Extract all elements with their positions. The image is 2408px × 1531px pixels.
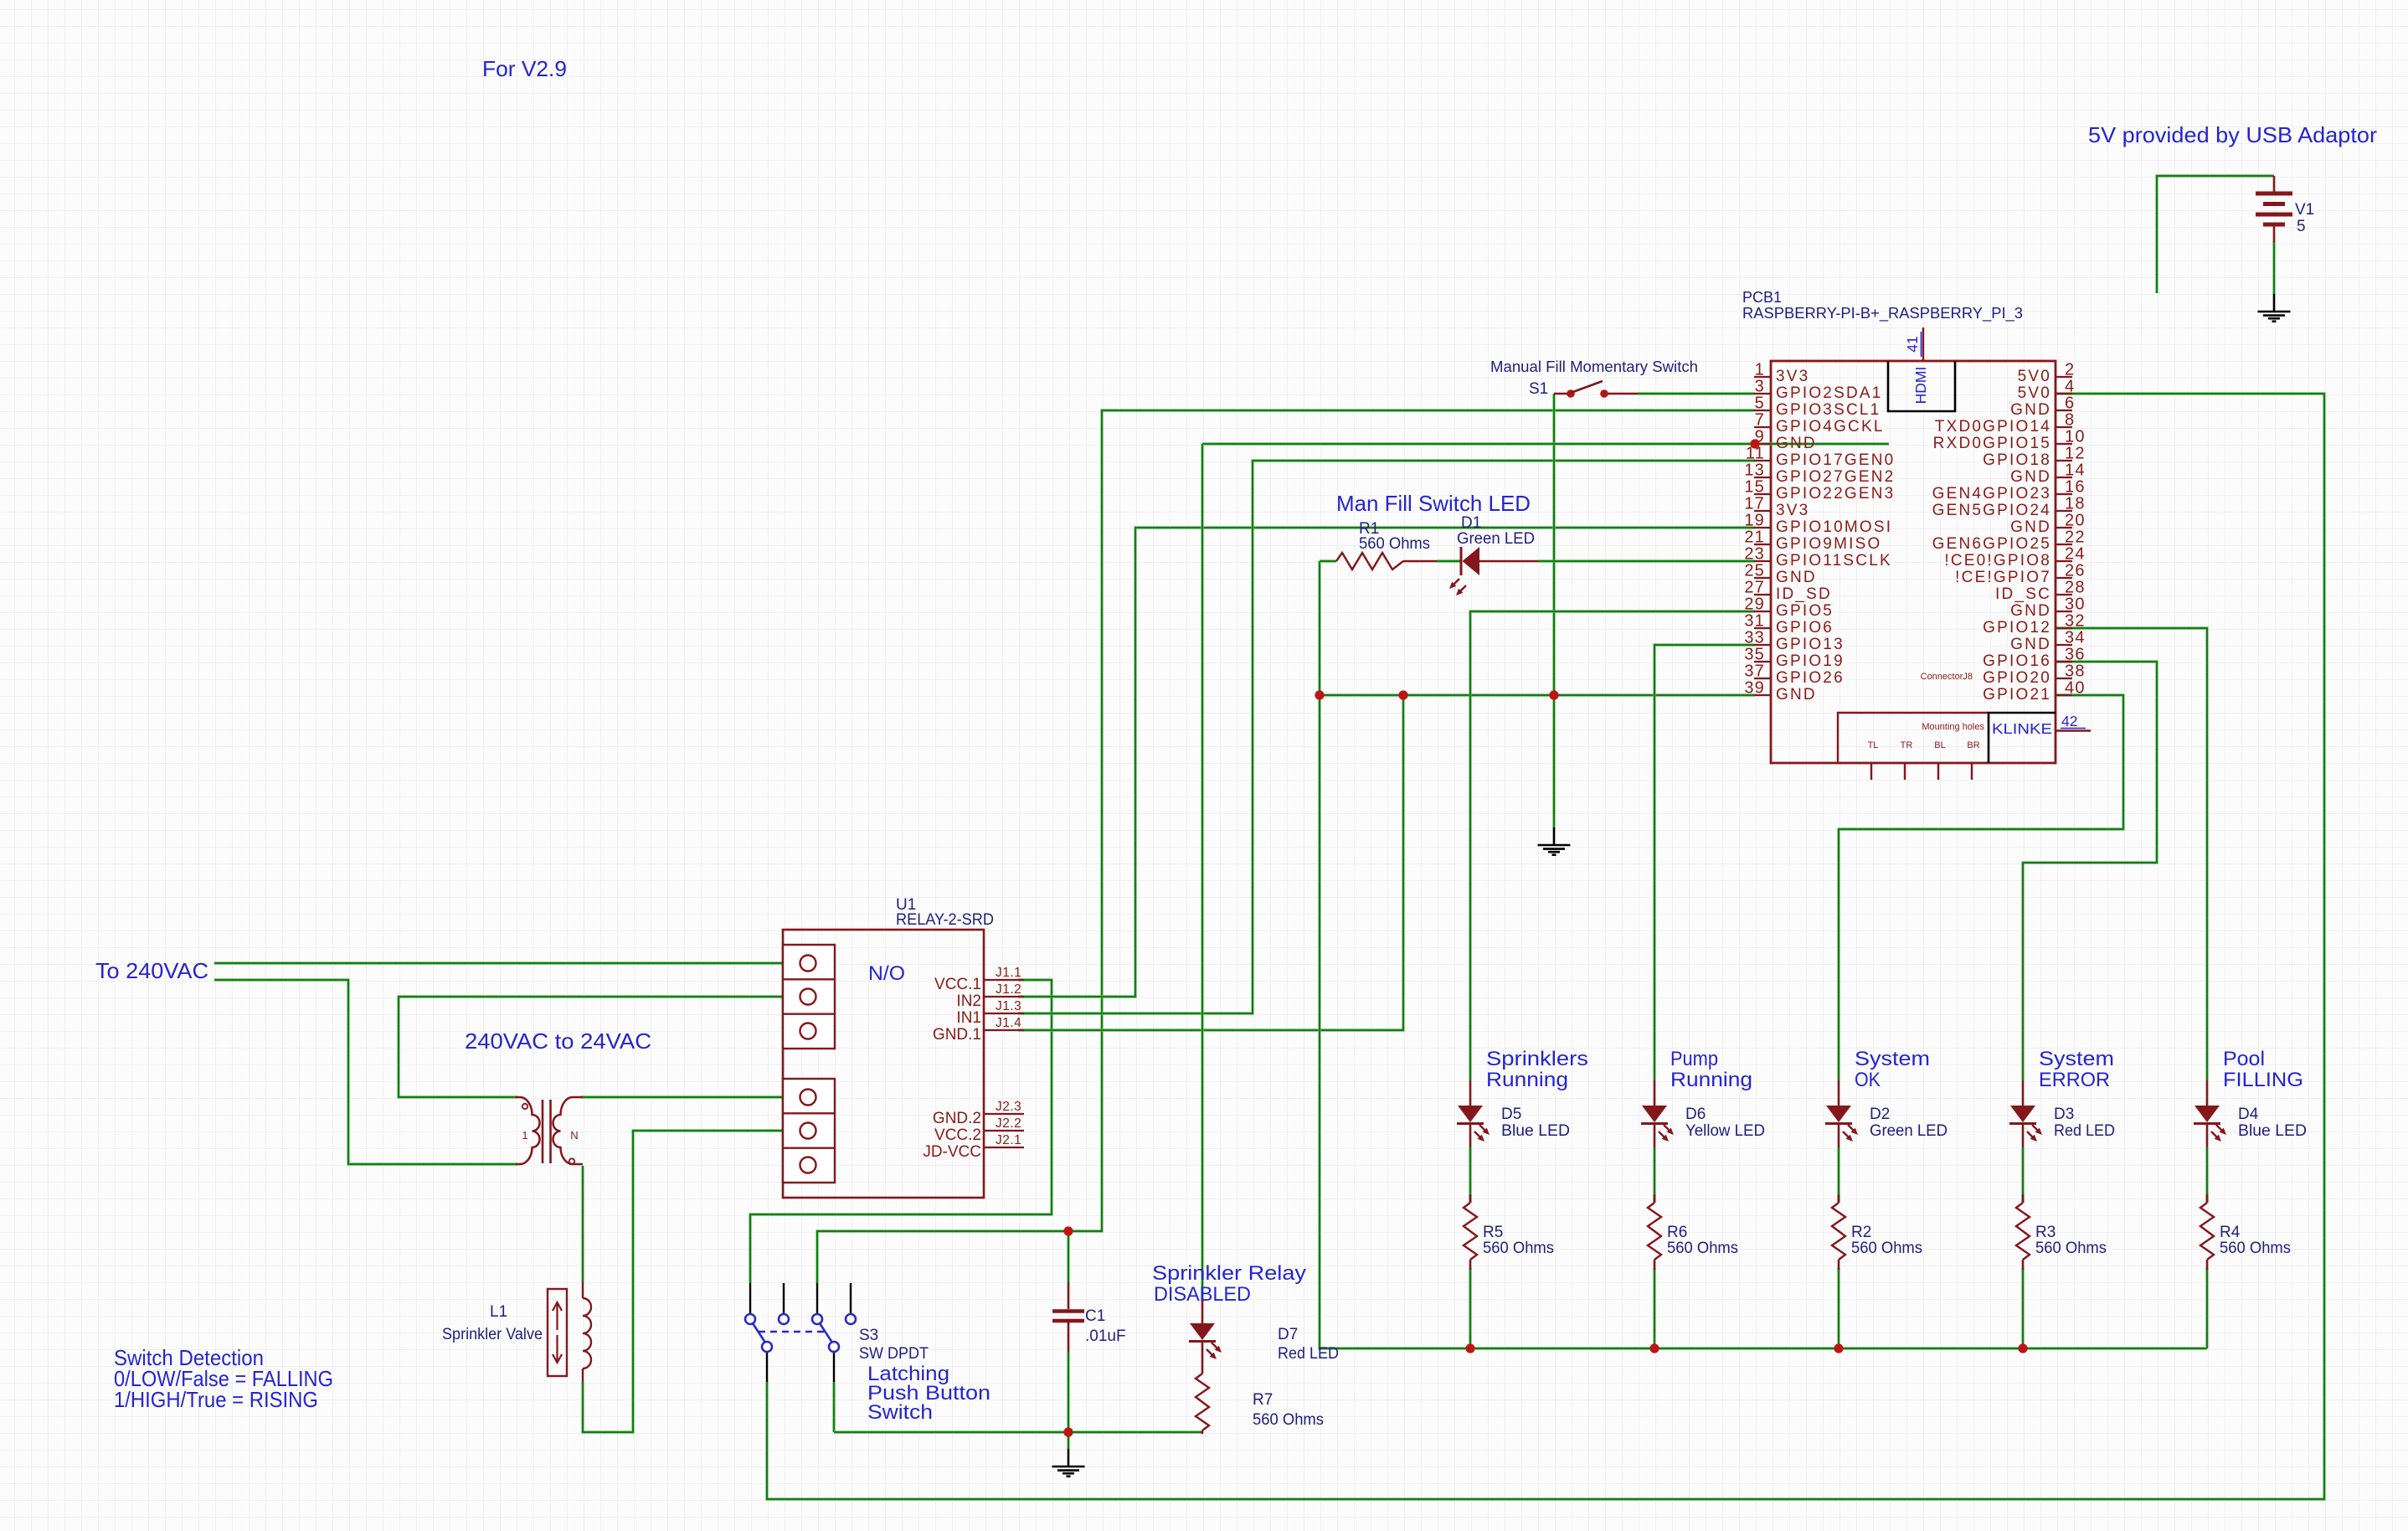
svg-text:3V3: 3V3 xyxy=(1776,502,1809,519)
LED D7 red xyxy=(1189,1298,1222,1365)
svg-text:28: 28 xyxy=(2065,579,2086,597)
LED D6 Yellow LED xyxy=(1641,1080,1674,1147)
svg-text:Mounting holes: Mounting holes xyxy=(1922,722,1984,732)
wire: relay U1 N/O terminal 2 to transformer primary top xyxy=(399,997,808,1097)
PCB1 left pins 1-39 with numbers and labels xyxy=(1744,361,1895,704)
svg-text:3: 3 xyxy=(1755,378,1765,396)
svg-text:29: 29 xyxy=(1744,595,1765,614)
svg-text:For V2.9: For V2.9 xyxy=(482,56,567,81)
svg-text:Pump: Pump xyxy=(1670,1048,1718,1070)
svg-text:PCB1: PCB1 xyxy=(1742,289,1782,306)
wire: S1 left terminal down to ground xyxy=(1552,394,1556,827)
svg-text:GND: GND xyxy=(2010,518,2051,536)
svg-text:20: 20 xyxy=(2065,512,2086,530)
svg-text:To 240VAC: To 240VAC xyxy=(95,958,208,983)
svg-text:3V3: 3V3 xyxy=(1776,368,1809,385)
wire: battery V1 positive stub xyxy=(2157,176,2274,293)
svg-text:D2: D2 xyxy=(1870,1106,1890,1123)
wire: transformer secondary top to relay coil terminal xyxy=(581,1095,808,1099)
svg-text:J1.1: J1.1 xyxy=(996,966,1021,980)
note header System ERROR xyxy=(2039,1048,2114,1091)
wire: relay GND.1 up to GND bus xyxy=(1018,695,1403,1030)
svg-text:19: 19 xyxy=(1744,512,1765,530)
switch S1 momentary xyxy=(1554,381,1638,398)
svg-text:42: 42 xyxy=(2061,713,2077,729)
label Sprinkler Relay DISABLED xyxy=(1152,1262,1307,1306)
svg-text:System: System xyxy=(1855,1048,1930,1070)
svg-text:560 Ohms: 560 Ohms xyxy=(1851,1240,1922,1257)
wire: pin 32 GPIO12 to LED D4 column xyxy=(2056,628,2207,1348)
svg-text:JD-VCC: JD-VCC xyxy=(923,1143,981,1161)
label PCB1 reference xyxy=(1742,289,2023,322)
note header Pool FILLING xyxy=(2223,1048,2303,1091)
label N/O xyxy=(868,962,905,985)
svg-text:R6: R6 xyxy=(1667,1224,1687,1241)
svg-text:10: 10 xyxy=(2065,428,2086,446)
ground symbol below C1 xyxy=(1052,1449,1085,1477)
svg-text:J1.3: J1.3 xyxy=(996,999,1021,1013)
svg-text:17: 17 xyxy=(1744,495,1765,513)
wire: L1 bottom to relay coil terminal 2 xyxy=(583,1131,808,1432)
mounting holes box TL TR BL BR xyxy=(1838,713,1989,780)
svg-text:ERROR: ERROR xyxy=(2039,1069,2110,1091)
svg-text:GND: GND xyxy=(1776,569,1817,586)
svg-text:C1: C1 xyxy=(1085,1307,1105,1325)
svg-text:Switch: Switch xyxy=(867,1401,933,1424)
junction: pin 9 GND xyxy=(1750,439,1759,448)
label D7 Red LED xyxy=(1278,1326,1339,1363)
label S3 SW DPDT xyxy=(859,1327,929,1363)
svg-text:Yellow LED: Yellow LED xyxy=(1685,1122,1765,1140)
wire: relay IN2 to pin 19 GPIO10MOSI xyxy=(1018,528,1755,997)
svg-text:J1.4: J1.4 xyxy=(996,1016,1021,1030)
ground symbol below S1 xyxy=(1538,827,1571,855)
svg-text:27: 27 xyxy=(1744,579,1765,597)
wire: LED common ground bus xyxy=(1320,561,2207,1348)
wire: pin 40 GPIO21 to LED D2 column xyxy=(1839,695,2123,1348)
note For V2.9 xyxy=(482,56,567,81)
svg-text:5V provided by USB Adaptor: 5V provided by USB Adaptor xyxy=(2088,122,2377,147)
wire: battery V1 negative to ground xyxy=(2272,241,2276,294)
svg-text:GPIO4GCKL: GPIO4GCKL xyxy=(1776,418,1885,436)
svg-text:N/O: N/O xyxy=(868,962,905,985)
label R2 560 Ohms xyxy=(1851,1224,1922,1257)
svg-text:VCC.2: VCC.2 xyxy=(934,1126,981,1144)
pin 42 KLINKE stub xyxy=(2056,713,2091,731)
svg-text:!CE!GPIO7: !CE!GPIO7 xyxy=(1955,569,2051,586)
svg-text:Green LED: Green LED xyxy=(1870,1122,1947,1140)
svg-text:35: 35 xyxy=(1744,646,1765,664)
svg-text:ID_SD: ID_SD xyxy=(1776,585,1832,603)
wire: S1 right terminal to pin 3 GPIO2SDA1 xyxy=(1638,392,1755,395)
svg-text:GPIO9MISO: GPIO9MISO xyxy=(1776,535,1881,553)
svg-text:S1: S1 xyxy=(1529,380,1548,398)
resistor R4 560 Ohms xyxy=(2200,1194,2214,1270)
svg-text:GND: GND xyxy=(2010,401,2051,419)
resistor R3 560 Ohms xyxy=(2016,1194,2030,1270)
net: pin 5 GPIO3SCL1 - S3 throw B1 - C1 top xyxy=(817,410,1755,1283)
svg-text:Pool: Pool xyxy=(2223,1048,2265,1070)
svg-text:ConnectorJ8: ConnectorJ8 xyxy=(1921,672,1973,682)
svg-text:Sprinklers: Sprinklers xyxy=(1486,1048,1588,1070)
svg-text:1/HIGH/True = RISING: 1/HIGH/True = RISING xyxy=(114,1387,318,1412)
svg-text:GPIO22GEN3: GPIO22GEN3 xyxy=(1776,485,1895,503)
svg-text:TL: TL xyxy=(1868,740,1879,750)
switch S3 SW DPDT xyxy=(745,1283,856,1382)
svg-text:GPIO27GEN2: GPIO27GEN2 xyxy=(1776,468,1895,486)
svg-text:560 Ohms: 560 Ohms xyxy=(1667,1240,1738,1257)
junction: C1 bottom / S3-R7 net xyxy=(1063,1427,1073,1436)
svg-text:15: 15 xyxy=(1744,478,1765,497)
label D1 Green LED xyxy=(1457,514,1535,548)
svg-text:22: 22 xyxy=(2065,528,2086,547)
wire: relay VCC.1 to S3 throw A1 xyxy=(750,980,1052,1283)
svg-text:J1.2: J1.2 xyxy=(996,982,1021,997)
svg-text:6: 6 xyxy=(2065,394,2075,413)
svg-text:16: 16 xyxy=(2065,478,2086,497)
svg-text:GPIO26: GPIO26 xyxy=(1776,669,1845,687)
wire: C1 column xyxy=(1067,1231,1070,1449)
svg-text:GEN6GPIO25: GEN6GPIO25 xyxy=(1932,535,2051,553)
label S1 xyxy=(1490,358,1698,398)
svg-text:21: 21 xyxy=(1744,528,1765,547)
svg-text:14: 14 xyxy=(2065,461,2086,480)
svg-text:System: System xyxy=(2039,1048,2114,1070)
svg-text:1: 1 xyxy=(522,1129,527,1142)
wire: D7 column from pin 9 GND xyxy=(1201,444,1204,1302)
svg-text:R5: R5 xyxy=(1483,1224,1503,1241)
label D2 Green LED xyxy=(1870,1106,1947,1140)
svg-text:!CE0!GPIO8: !CE0!GPIO8 xyxy=(1944,552,2051,570)
svg-text:8: 8 xyxy=(2065,411,2075,430)
junction: GND bus / relay GND.1 xyxy=(1398,690,1407,699)
svg-text:GPIO13: GPIO13 xyxy=(1776,636,1845,653)
svg-text:GEN4GPIO23: GEN4GPIO23 xyxy=(1932,485,2051,503)
wire: transformer secondary bottom to inductor L1 xyxy=(581,1166,584,1281)
svg-text:GND: GND xyxy=(2010,468,2051,486)
svg-text:Red LED: Red LED xyxy=(1278,1345,1339,1363)
junction: GND bus / S1 ground xyxy=(1549,690,1558,699)
label Latching Push Button Switch xyxy=(867,1363,990,1424)
svg-text:FILLING: FILLING xyxy=(2223,1069,2303,1091)
label D5 Blue LED xyxy=(1501,1106,1570,1140)
svg-text:560 Ohms: 560 Ohms xyxy=(2035,1240,2107,1257)
svg-text:D3: D3 xyxy=(2054,1106,2074,1123)
label R4 560 Ohms xyxy=(2220,1224,2291,1257)
svg-text:VCC.1: VCC.1 xyxy=(934,976,981,993)
svg-text:40: 40 xyxy=(2065,679,2086,698)
svg-text:Running: Running xyxy=(1486,1069,1568,1091)
svg-text:38: 38 xyxy=(2065,662,2086,681)
svg-text:26: 26 xyxy=(2065,562,2086,580)
label 240VAC to 24VAC xyxy=(465,1028,651,1054)
svg-text:Sprinkler Relay: Sprinkler Relay xyxy=(1152,1262,1307,1285)
svg-text:Blue LED: Blue LED xyxy=(1501,1122,1570,1140)
svg-text:7: 7 xyxy=(1755,411,1765,430)
label D4 Blue LED xyxy=(2238,1106,2307,1140)
svg-text:.01uF: .01uF xyxy=(1085,1327,1126,1345)
svg-text:GPIO6: GPIO6 xyxy=(1776,619,1834,637)
junction: C1 top / pin5-S3 net xyxy=(1063,1226,1073,1235)
svg-text:S3: S3 xyxy=(859,1327,878,1344)
svg-text:1: 1 xyxy=(1755,361,1765,379)
svg-text:KLINKE: KLINKE xyxy=(1992,720,2052,737)
note header Pump Running xyxy=(1670,1048,1752,1091)
svg-text:18: 18 xyxy=(2065,495,2086,513)
svg-text:ID_SC: ID_SC xyxy=(1995,585,2051,603)
svg-text:DISABLED: DISABLED xyxy=(1154,1283,1251,1306)
wire: To 240VAC lower line to transformer primary bottom xyxy=(214,980,517,1164)
relay U1 RELAY-2-SRD body xyxy=(783,930,984,1198)
svg-text:D5: D5 xyxy=(1501,1106,1521,1123)
svg-text:5V0: 5V0 xyxy=(2018,384,2051,402)
resistor R1 560 Ohms xyxy=(1320,553,1437,570)
svg-text:BR: BR xyxy=(1967,740,1979,750)
svg-text:R2: R2 xyxy=(1851,1224,1871,1241)
LED D2 Green LED xyxy=(1825,1080,1858,1147)
svg-text:5: 5 xyxy=(2297,218,2306,235)
resistor R5 560 Ohms xyxy=(1464,1194,1477,1270)
svg-text:GPIO17GEN0: GPIO17GEN0 xyxy=(1776,451,1895,469)
svg-text:GPIO19: GPIO19 xyxy=(1776,652,1845,670)
svg-text:560 Ohms: 560 Ohms xyxy=(1483,1240,1554,1257)
svg-text:Man Fill Switch LED: Man Fill Switch LED xyxy=(1336,491,1531,516)
label U1 RELAY-2-SRD xyxy=(896,896,994,929)
wire: To 240VAC upper line to relay U1 N/O terminal 1 xyxy=(214,961,808,965)
battery V1 5V xyxy=(2256,176,2292,242)
svg-text:J2.2: J2.2 xyxy=(996,1116,1021,1131)
svg-text:5: 5 xyxy=(1755,394,1765,413)
junction: ground bus / R6 xyxy=(1649,1343,1659,1353)
svg-text:R4: R4 xyxy=(2220,1224,2241,1241)
label C1 .01uF xyxy=(1085,1307,1126,1345)
junction: ground bus / R2 xyxy=(1834,1343,1843,1353)
svg-text:GND: GND xyxy=(1776,435,1817,452)
LED D4 Blue LED xyxy=(2194,1080,2226,1147)
wire: pin 33 GPIO13 to LED D6 column xyxy=(1654,645,1755,1348)
svg-text:GPIO18: GPIO18 xyxy=(1983,451,2051,469)
svg-text:HDMI: HDMI xyxy=(1912,367,1929,405)
svg-text:TXD0GPIO14: TXD0GPIO14 xyxy=(1935,418,2051,436)
svg-text:GPIO11SCLK: GPIO11SCLK xyxy=(1776,552,1892,570)
inductor L1 sprinkler valve xyxy=(548,1281,591,1382)
junction: ground bus / R3 xyxy=(2018,1343,2027,1353)
LED D5 Blue LED xyxy=(1457,1080,1490,1147)
svg-text:RXD0GPIO15: RXD0GPIO15 xyxy=(1933,435,2051,452)
svg-text:GPIO3SCL1: GPIO3SCL1 xyxy=(1776,401,1881,419)
IC PCB1 RASPBERRY-PI-B+_RASPBERRY_PI_3 body xyxy=(1771,361,2056,763)
svg-text:GPIO21: GPIO21 xyxy=(1983,686,2051,704)
svg-text:N: N xyxy=(570,1129,578,1142)
wire: S3 common B to R7 bottom, C1 bottom junction xyxy=(834,1382,1202,1432)
svg-text:R7: R7 xyxy=(1253,1391,1273,1409)
svg-text:GEN5GPIO24: GEN5GPIO24 xyxy=(1932,502,2051,519)
label D6 Yellow LED xyxy=(1685,1106,1765,1140)
resistor R7 560 Ohms xyxy=(1196,1365,1209,1434)
svg-text:GND.1: GND.1 xyxy=(933,1026,981,1044)
svg-text:J2.1: J2.1 xyxy=(996,1133,1021,1147)
svg-text:TR: TR xyxy=(1901,740,1913,750)
svg-text:25: 25 xyxy=(1744,562,1765,580)
svg-text:D4: D4 xyxy=(2238,1106,2259,1123)
label Man Fill Switch LED xyxy=(1336,491,1531,516)
label R1 560 Ohms xyxy=(1359,520,1430,553)
svg-text:IN2: IN2 xyxy=(956,992,981,1010)
svg-text:GPIO2SDA1: GPIO2SDA1 xyxy=(1776,384,1883,402)
label To 240VAC xyxy=(95,958,208,983)
wire: GND bus from pin 39 xyxy=(1320,693,1755,697)
label R3 560 Ohms xyxy=(2035,1224,2107,1257)
wire: 5V rail from pin 4 down right side and along bottom to S3 common A xyxy=(767,394,2324,1499)
capacitor C1 .01uF xyxy=(1052,1282,1084,1352)
pin 41 HDMI stub xyxy=(1904,327,1923,361)
svg-text:GPIO10MOSI: GPIO10MOSI xyxy=(1776,518,1892,536)
svg-text:SW DPDT: SW DPDT xyxy=(859,1345,929,1363)
svg-text:GPIO12: GPIO12 xyxy=(1983,619,2051,637)
relay U1 pins J1.1-J1.4 J2.1-J2.3 xyxy=(923,966,1024,1161)
svg-text:GND.2: GND.2 xyxy=(933,1110,981,1127)
svg-text:Green LED: Green LED xyxy=(1457,530,1535,548)
svg-text:2: 2 xyxy=(2065,361,2075,379)
svg-text:R3: R3 xyxy=(2035,1224,2056,1241)
junction: GND bus / LED ground bus xyxy=(1315,690,1324,699)
svg-text:D6: D6 xyxy=(1685,1106,1706,1123)
label ConnectorJ8 xyxy=(1921,672,1973,682)
svg-text:Sprinkler Valve: Sprinkler Valve xyxy=(442,1326,543,1343)
label R6 560 Ohms xyxy=(1667,1224,1738,1257)
label D3 Red LED xyxy=(2054,1106,2115,1140)
note Switch Detection xyxy=(114,1345,333,1412)
wire: pin 9 GND overshoot with junction at pin xyxy=(1202,442,1889,446)
note header Sprinklers Running xyxy=(1486,1048,1588,1091)
svg-text:Manual Fill Momentary Switch: Manual Fill Momentary Switch xyxy=(1490,358,1698,375)
note header System OK xyxy=(1855,1048,1930,1091)
KLINKE box on PCB1 xyxy=(1989,713,2056,763)
svg-text:GPIO5: GPIO5 xyxy=(1776,602,1834,620)
svg-text:GND: GND xyxy=(2010,602,2051,620)
junction: ground bus / R5 xyxy=(1465,1343,1474,1353)
svg-text:RASPBERRY-PI-B+_RASPBERRY_PI_3: RASPBERRY-PI-B+_RASPBERRY_PI_3 xyxy=(1742,305,2023,322)
svg-text:J2.3: J2.3 xyxy=(996,1100,1021,1114)
svg-text:39: 39 xyxy=(1744,679,1765,698)
svg-text:37: 37 xyxy=(1744,662,1765,681)
svg-text:31: 31 xyxy=(1744,612,1765,631)
label R5 560 Ohms xyxy=(1483,1224,1554,1257)
ground symbol below battery V1 xyxy=(2258,294,2291,322)
wire: R1 to D1 link and D1 to pin 23 GPIO11SCLK xyxy=(1437,559,1755,563)
resistor R6 560 Ohms xyxy=(1648,1194,1661,1270)
svg-text:32: 32 xyxy=(2065,612,2086,631)
svg-text:36: 36 xyxy=(2065,646,2086,664)
svg-text:560 Ohms: 560 Ohms xyxy=(1253,1411,1324,1429)
wire: pin 36 GPIO16 to LED D3 column xyxy=(2023,662,2157,1348)
PCB1 right pins 2-40 with numbers and labels xyxy=(1932,361,2086,704)
svg-text:33: 33 xyxy=(1744,629,1765,647)
svg-text:BL: BL xyxy=(1934,740,1945,750)
svg-text:GND: GND xyxy=(2010,636,2051,653)
svg-text:Red LED: Red LED xyxy=(2054,1122,2115,1140)
resistor R2 560 Ohms xyxy=(1832,1194,1845,1270)
svg-text:41: 41 xyxy=(1904,336,1921,352)
svg-text:IN1: IN1 xyxy=(956,1009,981,1027)
svg-text:23: 23 xyxy=(1744,545,1765,564)
label L1 Sprinkler Valve xyxy=(442,1303,543,1343)
note 5V provided by USB Adaptor xyxy=(2088,122,2377,147)
svg-text:5V0: 5V0 xyxy=(2018,368,2051,385)
svg-text:34: 34 xyxy=(2065,629,2086,647)
svg-text:560 Ohms: 560 Ohms xyxy=(2220,1240,2291,1257)
svg-text:240VAC to 24VAC: 240VAC to 24VAC xyxy=(465,1028,651,1054)
label R7 560 Ohms xyxy=(1253,1391,1324,1429)
wire: relay IN1 to pin 11 GPIO17GEN0 xyxy=(1018,461,1755,1013)
svg-text:30: 30 xyxy=(2065,595,2086,614)
svg-text:Running: Running xyxy=(1670,1069,1752,1091)
svg-text:D7: D7 xyxy=(1278,1326,1298,1343)
label V1 5 xyxy=(2295,201,2314,235)
svg-text:V1: V1 xyxy=(2295,201,2314,219)
svg-text:Blue LED: Blue LED xyxy=(2238,1122,2307,1140)
LED D1 green xyxy=(1449,547,1538,595)
svg-text:GPIO16: GPIO16 xyxy=(1983,652,2051,670)
svg-text:OK: OK xyxy=(1855,1069,1881,1091)
svg-text:12: 12 xyxy=(2065,445,2086,463)
LED D3 Red LED xyxy=(2009,1080,2042,1147)
svg-text:RELAY-2-SRD: RELAY-2-SRD xyxy=(896,911,994,929)
HDMI port box on PCB1 xyxy=(1888,361,1955,411)
svg-text:D1: D1 xyxy=(1461,514,1481,532)
svg-text:GPIO20: GPIO20 xyxy=(1983,669,2051,687)
svg-text:13: 13 xyxy=(1744,461,1765,480)
svg-text:GND: GND xyxy=(1776,686,1817,704)
transformer 240VAC to 24VAC xyxy=(516,1097,583,1164)
wire: pin 29 GPIO5 to LED D5 column and to ground bus xyxy=(1470,611,1755,1348)
svg-text:560 Ohms: 560 Ohms xyxy=(1359,535,1430,553)
svg-text:4: 4 xyxy=(2065,378,2075,396)
svg-text:L1: L1 xyxy=(490,1303,507,1321)
svg-text:24: 24 xyxy=(2065,545,2086,564)
